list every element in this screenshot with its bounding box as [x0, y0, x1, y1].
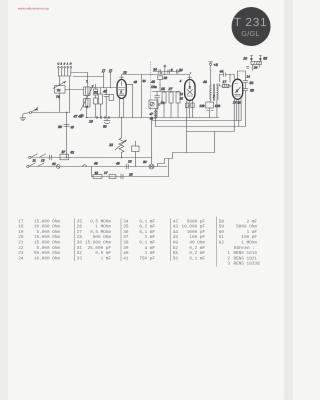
svg-text:0,1 mF: 0,1 mF: [189, 256, 205, 261]
wire resistor76 down: [209, 108, 211, 118]
svg-text:0,1 mF: 0,1 mF: [139, 240, 155, 245]
transformer 46 core: [213, 84, 214, 101]
wire bus A: [31, 156, 152, 158]
dial lamp 40: [56, 165, 60, 169]
svg-text:G/GL: G/GL: [241, 29, 259, 38]
wire tube2 pins: [187, 100, 193, 117]
svg-text:27 18: 27 18: [232, 101, 241, 105]
wire terminal down: [69, 76, 71, 113]
svg-text:5.000 Ohm: 5.000 Ohm: [37, 245, 61, 251]
svg-text:20: 20: [18, 235, 24, 240]
svg-text:30: 30: [103, 124, 107, 128]
svg-text:16a: 16a: [151, 85, 157, 89]
svg-text:31: 31: [77, 246, 83, 251]
svg-text:50: 50: [250, 81, 254, 85]
svg-text:0,2 mF: 0,2 mF: [139, 225, 155, 230]
svg-text:T 231: T 231: [234, 15, 267, 29]
band switch linkage dashed: [149, 62, 151, 110]
svg-text:1: 1: [227, 251, 230, 256]
tube 1 internals: [119, 81, 125, 95]
svg-text:1: 1: [120, 90, 122, 94]
tuning coil 6: [84, 98, 91, 107]
wire resistor30 leads: [100, 88, 102, 118]
wire grid rail: [90, 86, 117, 88]
resistor 76 box: [206, 102, 214, 108]
wire posts to trimmers: [73, 75, 104, 77]
resistor 30: [99, 94, 103, 104]
svg-text:14: 14: [247, 75, 251, 79]
svg-text:0,5 MOhm: 0,5 MOhm: [90, 218, 111, 224]
svg-text:10.000 pF: 10.000 pF: [182, 225, 206, 230]
wire cathode rail: [86, 116, 220, 118]
wire posts to coil top: [71, 72, 88, 87]
tube2 socket boxes: [185, 103, 194, 108]
svg-text:37: 37: [62, 150, 66, 154]
svg-text:34: 34: [123, 219, 129, 224]
table separator lines: [74, 216, 216, 266]
resistor box right: [109, 94, 114, 100]
svg-text:12k: 12k: [199, 104, 205, 108]
wire heater drop: [186, 118, 188, 153]
svg-text:39: 39: [123, 246, 129, 251]
svg-text:47: 47: [149, 112, 153, 116]
wire coil link: [86, 95, 88, 98]
output matching box 24: [251, 61, 262, 64]
switch 11b: [40, 154, 46, 157]
svg-text:750 pF: 750 pF: [139, 256, 155, 261]
svg-text:RENS 1819: RENS 1819: [233, 251, 257, 256]
wire primary top: [210, 83, 213, 85]
speaker terminal dots: [250, 58, 261, 60]
wire staircase lower: [168, 159, 170, 177]
capacitor 43: [104, 95, 108, 97]
svg-text:10: 10: [95, 171, 99, 175]
svg-text:62: 62: [219, 241, 225, 246]
wire +3 down: [210, 65, 212, 83]
svg-text:3: 3: [227, 262, 230, 267]
svg-text:35: 35: [123, 225, 129, 230]
band switch arm: [158, 101, 162, 106]
tuning arrow: [81, 85, 94, 111]
svg-text:44: 44: [220, 70, 224, 74]
wire tube3 top cap: [237, 71, 245, 79]
svg-text:34: 34: [153, 68, 157, 72]
wire tube2 top: [189, 75, 191, 80]
terminal C stub: [164, 65, 167, 72]
svg-text:1000 pF: 1000 pF: [187, 230, 206, 235]
svg-text:25: 25: [77, 219, 83, 224]
svg-text:100 pF: 100 pF: [189, 235, 205, 240]
svg-text:1 mF: 1 mF: [145, 235, 156, 240]
wire tube1 cathode pins: [120, 98, 124, 117]
logo badge circle T 231 G/GL: [232, 7, 271, 46]
wire pot feed: [121, 117, 123, 137]
svg-text:50.000 Ohm: 50.000 Ohm: [34, 250, 60, 256]
switch 12c: [39, 163, 45, 166]
svg-text:1 mF: 1 mF: [101, 256, 112, 261]
wire bus C: [91, 175, 168, 177]
socket contacts: [96, 117, 110, 119]
wire ground stem: [23, 112, 30, 117]
svg-text:0,5 mF: 0,5 mF: [95, 251, 111, 256]
wire primary bottom to resistor 76: [210, 100, 212, 102]
svg-text:13: 13: [123, 70, 127, 74]
svg-text:15.000 Ohm: 15.000 Ohm: [85, 239, 111, 245]
wire tube3 second top pin: [230, 75, 234, 80]
transformer 46 secondary: [217, 85, 218, 99]
speaker terminals: [250, 56, 261, 62]
svg-text:36: 36: [58, 125, 62, 129]
resistor 25: [162, 91, 166, 118]
capacitor 44a: [155, 91, 160, 118]
wire tube1 anode stub: [126, 84, 132, 117]
svg-text:C: C: [57, 63, 59, 66]
resistor 17 hatched box: [223, 84, 230, 87]
svg-text:58: 58: [250, 89, 254, 93]
svg-text:15.000 Ohm: 15.000 Ohm: [34, 218, 60, 224]
wire feedthrough down: [141, 74, 143, 117]
svg-text:10.000 Ohm: 10.000 Ohm: [34, 224, 60, 230]
switch arrow through box 74: [53, 81, 66, 88]
capacitor 38: [121, 174, 123, 179]
wire caps column: [245, 71, 247, 97]
ground (antenna earth): [20, 118, 26, 121]
svg-text:27: 27: [77, 230, 83, 235]
measurement jack chain: [154, 111, 157, 119]
wire tube3 pin d down: [240, 99, 242, 121]
svg-text:18: 18: [129, 172, 133, 176]
svg-text:5.000 Ohm: 5.000 Ohm: [37, 229, 61, 235]
wire run 126: [156, 97, 246, 126]
svg-text:15.000 Ohm: 15.000 Ohm: [34, 234, 60, 240]
coil pair 26b: [94, 84, 98, 118]
svg-text:24: 24: [18, 256, 24, 261]
svg-text:60: 60: [219, 230, 225, 235]
wire to wave switch box: [59, 76, 61, 86]
resistor 27: [169, 91, 173, 118]
capacitor 50: [243, 81, 248, 83]
svg-text:36: 36: [123, 230, 129, 235]
wire cap row drop: [164, 72, 166, 75]
svg-text:24: 24: [253, 65, 258, 69]
svg-text:0,1 mF: 0,1 mF: [139, 230, 155, 235]
capacitor 34: [159, 70, 161, 74]
transformer 46 primary: [210, 85, 211, 99]
svg-text:2: 2: [227, 256, 230, 261]
wire grid tube3: [229, 85, 232, 87]
wire bus B: [29, 165, 167, 167]
svg-text:1 mF: 1 mF: [247, 230, 258, 235]
tube 2 internals: [187, 82, 193, 97]
fuse hump on bus B: [82, 165, 87, 167]
svg-text:32: 32: [77, 251, 83, 256]
svg-text:58: 58: [219, 219, 225, 224]
svg-text:45: 45: [151, 80, 155, 84]
svg-text:0,1 mF: 0,1 mF: [139, 219, 155, 224]
svg-text:55: 55: [173, 251, 179, 256]
label 129 ticks: [207, 110, 214, 112]
svg-text:45: 45: [173, 235, 179, 240]
capacitor 44: [220, 73, 231, 77]
svg-text:12: 12: [180, 92, 184, 96]
svg-text:8: 8: [171, 68, 173, 72]
svg-text:37: 37: [123, 235, 129, 240]
capacitor 28 on bus B: [126, 164, 128, 169]
svg-text:22: 22: [108, 143, 113, 147]
tube 1 RENS1819: [117, 79, 126, 98]
svg-text:2: 2: [188, 86, 191, 90]
wire secondary bottom: [216, 100, 218, 118]
svg-text:5000 pF: 5000 pF: [187, 219, 206, 224]
terminal bus A: [29, 156, 31, 158]
plus terminal 47: [81, 114, 84, 117]
svg-text:23: 23: [18, 251, 24, 256]
tube 3 RENS1823d: [232, 79, 242, 99]
svg-text:10: 10: [243, 57, 247, 61]
band indicator box: [149, 100, 158, 109]
svg-text:0,2 mF: 0,2 mF: [189, 251, 205, 256]
capacitor 8: [168, 70, 170, 74]
trimmer 28: [102, 69, 105, 72]
svg-text:Röhren :: Röhren :: [234, 245, 255, 251]
capacitor 36: [64, 124, 70, 126]
resistor 37: [176, 91, 180, 118]
svg-text:15.000 Ohm: 15.000 Ohm: [34, 239, 60, 245]
svg-text:40 Ohm: 40 Ohm: [189, 240, 205, 246]
svg-text:3: 3: [236, 89, 238, 93]
svg-text:30: 30: [77, 240, 83, 245]
svg-text:www.radiomuseum.org: www.radiomuseum.org: [18, 6, 49, 10]
labels 48 49: [94, 161, 120, 165]
wire tone box leads: [135, 141, 137, 166]
svg-text:500 Ohm: 500 Ohm: [93, 234, 112, 240]
terminal +3: [209, 62, 213, 66]
tone capacitor box 14: [132, 146, 140, 152]
svg-text:0,2 mF: 0,2 mF: [189, 246, 205, 251]
tube 2 RENS1821: [185, 80, 195, 101]
capacitor 52a: [50, 155, 52, 160]
wire bus B to bus C step: [90, 166, 92, 176]
svg-text:41: 41: [123, 256, 129, 261]
trimmer 18: [109, 69, 112, 72]
svg-text:78: 78: [161, 101, 165, 105]
svg-text:17: 17: [223, 80, 227, 84]
capacitor 58: [243, 89, 248, 91]
svg-text:10.000 Ohm: 10.000 Ohm: [34, 255, 60, 261]
fuse 10 box: [93, 175, 102, 179]
svg-text:56: 56: [173, 256, 179, 261]
svg-text:0,5 MOhm: 0,5 MOhm: [90, 229, 111, 235]
svg-text:39: 39: [143, 160, 147, 164]
svg-text:18: 18: [18, 225, 24, 230]
svg-text:55: 55: [263, 57, 267, 61]
terminal post letter labels: [57, 63, 71, 66]
svg-text:43: 43: [173, 225, 179, 230]
wire terminal bus: [58, 75, 70, 77]
wave switch box 74: [55, 86, 66, 93]
wire tube3 pin a down: [233, 99, 235, 132]
svg-text:1 mF: 1 mF: [145, 251, 156, 256]
electrolytic 30 below rail: [104, 117, 110, 123]
wire screen rail: [152, 74, 190, 76]
capacitor 24: [176, 70, 178, 74]
wire coil bottom to cathode rail: [86, 107, 88, 118]
svg-text:4 mF: 4 mF: [145, 246, 156, 251]
svg-text:129: 129: [215, 104, 221, 108]
svg-text:100 pF: 100 pF: [241, 235, 257, 240]
svg-text:44: 44: [173, 230, 179, 235]
svg-text:16: 16: [128, 159, 132, 163]
resistor 26 box: [158, 76, 163, 92]
left page edge shading: [0, 0, 8, 400]
pilot lamp 39: [149, 164, 154, 169]
svg-text:31: 31: [143, 79, 147, 83]
svg-text:52: 52: [173, 246, 179, 251]
wire staircase upper: [158, 132, 215, 167]
svg-text:19: 19: [18, 230, 24, 235]
wire transformer sec to grid resistor: [217, 84, 223, 86]
antenna switch: [31, 109, 36, 112]
svg-text:RENS 1821: RENS 1821: [233, 256, 257, 261]
tube 3 internals: [235, 84, 241, 97]
wire box74 to coils: [65, 88, 84, 90]
svg-text:1 MOhm: 1 MOhm: [241, 240, 257, 246]
svg-text:26: 26: [163, 76, 168, 80]
wire tube3 pin b down: [236, 99, 238, 120]
wire pot to bus A: [121, 152, 123, 158]
svg-text:16: 16: [180, 97, 184, 101]
resistor 37 box: [60, 154, 69, 160]
svg-text:40: 40: [52, 162, 56, 166]
svg-text:61: 61: [219, 235, 225, 240]
potentiometer 62 zigzag (volume): [119, 138, 124, 152]
wire trimmer drops: [104, 72, 111, 88]
svg-text:42: 42: [173, 219, 179, 224]
switch 11: [32, 154, 38, 157]
svg-text:52: 52: [71, 150, 75, 154]
svg-text:26: 26: [77, 225, 83, 230]
right page edge shading: [284, 0, 293, 400]
svg-text:D: D: [70, 63, 72, 66]
wire tube3 pin c down: [238, 99, 240, 126]
svg-text:+3: +3: [214, 63, 218, 67]
svg-text:40: 40: [123, 251, 129, 256]
wire secondary top: [216, 84, 218, 85]
svg-text:28: 28: [77, 235, 83, 240]
junction dots: [66, 72, 191, 158]
svg-text:49: 49: [173, 241, 179, 246]
tube1 top cap tick: [120, 76, 124, 78]
svg-text:2 mF: 2 mF: [247, 219, 258, 224]
wire run 131: [187, 131, 234, 133]
svg-text:43: 43: [134, 80, 138, 84]
wire capacitor43 leads: [105, 88, 107, 118]
svg-text:1: 1: [36, 107, 38, 111]
wire inter rail: [152, 91, 180, 93]
svg-text:59: 59: [219, 225, 225, 230]
svg-text:46: 46: [203, 80, 207, 84]
tiny cap left of box: [247, 67, 250, 69]
antenna terminal: [29, 111, 31, 113]
switch 12b: [30, 163, 36, 166]
wire antenna branch down: [66, 112, 68, 157]
svg-text:12: 12: [41, 158, 45, 162]
svg-text:RENS 1823d: RENS 1823d: [233, 261, 259, 267]
svg-text:33: 33: [77, 256, 83, 261]
wire tube1 top cap: [122, 74, 152, 79]
terminal posts: [58, 66, 72, 76]
resistor box on bus C: [109, 175, 116, 179]
svg-text:24: 24: [178, 68, 183, 72]
svg-text:22: 22: [18, 246, 24, 251]
wire run 120: [152, 118, 241, 121]
wire cap44 drop: [220, 75, 231, 83]
svg-text:17: 17: [18, 219, 24, 224]
svg-text:1 MOhm: 1 MOhm: [95, 224, 111, 230]
tube2 top cap tick: [188, 77, 192, 79]
svg-text:30: 30: [94, 90, 98, 94]
wire antenna to oscillator section: [31, 111, 69, 113]
wire box74 down: [59, 93, 61, 112]
potentiometer wiper arrow: [115, 140, 127, 150]
svg-text:11: 11: [33, 158, 37, 162]
wire lamp feed: [151, 118, 153, 165]
tuning coil 5: [84, 87, 91, 96]
wire top cap row: [153, 71, 181, 73]
svg-text:17: 17: [104, 171, 108, 175]
wire box stems down: [253, 64, 260, 70]
svg-text:10: 10: [89, 119, 93, 123]
svg-text:5000 Ohm: 5000 Ohm: [236, 224, 257, 230]
svg-text:25: 25: [160, 87, 165, 91]
svg-text:25.000 pF: 25.000 pF: [88, 246, 112, 251]
svg-text:27: 27: [168, 87, 173, 91]
svg-text:38: 38: [123, 240, 129, 245]
svg-text:74: 74: [57, 89, 61, 93]
terminal bus B: [27, 165, 29, 167]
svg-text:48: 48: [94, 161, 98, 165]
svg-text:21: 21: [18, 240, 24, 245]
svg-text:49: 49: [116, 161, 120, 165]
